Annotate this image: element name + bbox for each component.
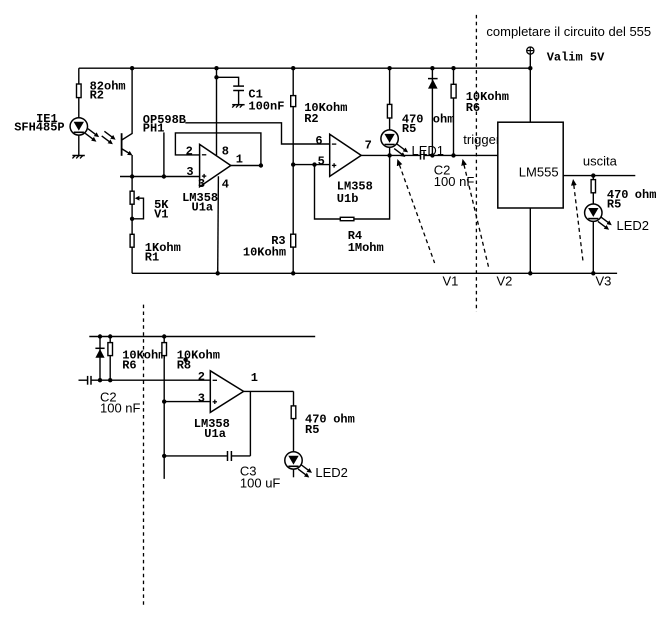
resistor R8 10Kohm branch	[163, 337, 165, 479]
node LED2 rail junction	[591, 271, 595, 275]
power symbol Valim	[527, 47, 534, 54]
LED2 (bottom)	[285, 452, 302, 469]
node diode rail junction	[430, 66, 434, 70]
node R8 rail junction	[162, 334, 166, 338]
node Valim rail junction	[528, 66, 532, 70]
node R6 rail junction	[451, 66, 455, 70]
node pin8 rail junction	[214, 66, 218, 70]
resistor R8 body	[162, 343, 167, 356]
resistor R5 body (bottom)	[291, 406, 296, 419]
diode cathode bar	[428, 78, 438, 80]
phototransistor PH1 base bar	[121, 133, 123, 156]
node C3 junction on R8 line	[162, 454, 166, 458]
node LM555 ground junction	[528, 271, 532, 275]
wire divider to U1b pin5	[293, 164, 330, 166]
node C1 tap junction	[214, 75, 218, 79]
potentiometer V1 body	[130, 191, 134, 204]
svg-text:100 nF: 100 nF	[100, 400, 141, 415]
ground below IE1	[72, 155, 84, 157]
resistor R4 feedback loop wire	[315, 155, 390, 219]
wire U1a output	[231, 165, 261, 167]
wire U1a feedback pin1 to pin2	[175, 133, 261, 166]
svg-text:U1a: U1a	[192, 201, 214, 215]
svg-text:SFH485P: SFH485P	[14, 121, 64, 135]
node pin5 divider junction	[291, 162, 295, 166]
svg-text:R6: R6	[466, 101, 480, 115]
light arrows from LED1	[397, 144, 405, 150]
wire emitter node to U1b pin6	[164, 123, 330, 177]
svg-text:V1: V1	[443, 274, 459, 289]
svg-text:4: 4	[222, 177, 229, 191]
dashed probe arrow V3	[574, 185, 583, 263]
resistor R4 1Mohm body	[340, 217, 354, 220]
svg-text:5: 5	[318, 154, 325, 168]
node pin4 rail junction	[216, 271, 220, 275]
capacitor C2 input (bottom)	[79, 379, 88, 381]
diode body triangle (bottom)	[95, 349, 104, 358]
U1a pin4 line to ground rail	[217, 176, 220, 273]
svg-text:3: 3	[198, 177, 205, 191]
svg-text:1: 1	[251, 371, 258, 385]
svg-text:6: 6	[315, 134, 322, 148]
dashed probe arrow V2	[464, 165, 489, 267]
svg-text:trigger: trigger	[463, 132, 501, 147]
dashed probe arrow V1	[399, 165, 434, 263]
svg-text:LED2: LED2	[315, 465, 348, 480]
svg-text:R5: R5	[305, 423, 319, 437]
resistor R5 470ohm branch for LED2	[592, 176, 594, 274]
node output LED1/R4 junction	[387, 153, 391, 157]
svg-text:100nF: 100nF	[248, 100, 284, 114]
wire emitter row to U1a pin3	[120, 176, 200, 178]
op-amp U1b triangle	[330, 134, 362, 176]
node pin5 R4 junction	[312, 162, 316, 166]
LED2	[585, 204, 602, 221]
resistor R2 10Kohm body	[291, 96, 296, 107]
resistor R6 body (bottom)	[108, 343, 113, 356]
node R6 rail junction (bottom)	[108, 334, 112, 338]
svg-text:V3: V3	[596, 274, 612, 289]
wire LM555 ground pin	[529, 208, 531, 273]
U1b plus sign pin5	[332, 164, 336, 166]
ground below C1	[232, 104, 244, 106]
IC LM555 box	[498, 122, 563, 208]
svg-text:uscita: uscita	[583, 153, 618, 168]
wire left branch V1/R1 down to ground rail	[131, 177, 133, 274]
svg-text:7: 7	[365, 138, 372, 152]
wire C3 row	[164, 455, 227, 457]
U1a minus sign pin2	[202, 154, 206, 156]
node emitter junction on wire	[130, 174, 134, 178]
resistor R5 470ohm body	[387, 104, 391, 118]
svg-text:LM555: LM555	[519, 164, 559, 179]
capacitor C1 branch wire	[217, 77, 239, 85]
svg-text:R1: R1	[145, 251, 159, 265]
U1a minus sign (bottom)	[213, 379, 217, 381]
light arrows from LED2 (bottom)	[301, 465, 309, 471]
svg-text:1Mohm: 1Mohm	[348, 241, 384, 255]
phototransistor PH1 emitter with arrow	[122, 149, 129, 153]
node output LED2 junction	[591, 173, 595, 177]
wire Valim to LM555 Vcc	[529, 54, 531, 122]
capacitor C3 plates	[227, 451, 229, 461]
node R6 trigger junction	[451, 153, 455, 157]
diode body triangle	[428, 79, 438, 88]
svg-text:V2: V2	[497, 274, 513, 289]
op-amp U1a triangle (bottom)	[210, 371, 243, 413]
svg-text:U1b: U1b	[337, 192, 359, 206]
svg-text:V1: V1	[154, 207, 168, 221]
phototransistor PH1 collector wire to rail	[122, 68, 132, 140]
resistor R6 body	[451, 84, 456, 98]
wire R8 to U1a pin3 (bottom)	[164, 401, 210, 403]
svg-text:R2: R2	[90, 89, 104, 103]
diode to rail	[431, 68, 433, 155]
wire uscita output of LM555	[563, 175, 635, 177]
node diode trigger junction	[430, 153, 434, 157]
svg-text:100 uF: 100 uF	[240, 475, 281, 490]
svg-text:completare il circuito del 555: completare il circuito del 555	[486, 24, 651, 39]
stray junction dot on R8 label	[183, 357, 187, 361]
svg-text:R5: R5	[607, 198, 621, 212]
light arrows into phototransistor PH1	[104, 131, 112, 137]
wire trigger from C2 to LM555	[424, 154, 498, 156]
U1a plus sign pin3	[202, 175, 206, 177]
node diode wire junction (bottom)	[98, 378, 102, 382]
resistor R5 470ohm branch for LED1	[389, 68, 391, 155]
resistor R5 body (LED2)	[591, 180, 595, 193]
dashed separator line bottom	[143, 305, 145, 606]
svg-text:ohm: ohm	[433, 112, 455, 126]
resistor R6 10Kohm branch (bottom)	[109, 337, 111, 381]
svg-text:2: 2	[186, 145, 193, 159]
U1a plus sign (bottom)	[213, 401, 217, 403]
svg-text:10Kohm: 10Kohm	[243, 245, 286, 259]
op-amp U1a triangle	[200, 144, 231, 186]
node R6 wire junction (bottom)	[108, 378, 112, 382]
LED1	[381, 130, 398, 147]
svg-text:PH1: PH1	[143, 122, 165, 136]
svg-text:R6: R6	[122, 358, 136, 372]
wire U1b output to C2	[361, 154, 420, 156]
node divider bottom junction	[291, 271, 295, 275]
svg-text:2: 2	[198, 370, 205, 384]
svg-text:R2: R2	[304, 112, 318, 126]
wire bottom ground rail	[132, 272, 617, 274]
svg-text:ohm: ohm	[635, 188, 657, 202]
node U1a output junction	[259, 163, 263, 167]
svg-text:8: 8	[222, 145, 229, 159]
resistor R1 1Kohm body	[130, 234, 134, 247]
capacitor C1 plates	[233, 85, 244, 87]
svg-text:R5: R5	[402, 122, 416, 136]
node PH1 wire junction	[162, 174, 166, 178]
light emission arrows from IE1	[88, 129, 96, 135]
U1b minus sign pin6	[332, 143, 336, 145]
svg-text:ohm: ohm	[333, 413, 355, 427]
resistor R2 82ohm branch wire	[78, 68, 80, 155]
node R5 rail junction	[387, 66, 391, 70]
svg-text:1: 1	[236, 153, 243, 167]
resistor R6 10Kohm branch	[453, 68, 455, 155]
svg-text:3: 3	[186, 165, 193, 179]
IR LED IE1 SFH485P	[70, 118, 87, 135]
resistor R5 470ohm branch (bottom LED2)	[293, 391, 295, 452]
node pin3 junction (bottom)	[162, 399, 166, 403]
node divider top junction	[291, 66, 295, 70]
svg-text:LED2: LED2	[617, 218, 650, 233]
wire output to C3	[249, 391, 251, 456]
node V1 wiper junction	[130, 217, 134, 221]
light arrows from LED2	[601, 217, 609, 223]
diode branch wire (bottom)	[99, 337, 101, 381]
wire U1a output (bottom)	[244, 390, 294, 392]
svg-text:U1a: U1a	[204, 427, 226, 441]
dashed separator line top	[475, 15, 477, 312]
PH1 label with background	[142, 114, 186, 132]
resistor R3 10Kohm body	[291, 234, 296, 247]
capacitor C2 series plates	[420, 151, 422, 159]
node diode rail junction (bottom)	[98, 334, 102, 338]
wire bottom-circuit supply rail	[89, 336, 315, 338]
U1a pin8 supply line	[216, 68, 218, 155]
node collector-rail junction	[130, 66, 134, 70]
potentiometer V1 wiper arrow	[135, 196, 140, 201]
wire C2 to U1a pin2 (bottom)	[91, 379, 210, 381]
wire top supply rail	[79, 67, 531, 69]
resistor R2 82ohm body	[77, 84, 82, 98]
svg-text:Valim 5V: Valim 5V	[547, 50, 605, 64]
svg-text:3: 3	[198, 392, 205, 406]
wire R2/R3 divider column	[292, 68, 294, 273]
diode cathode bar (bottom)	[95, 347, 104, 349]
